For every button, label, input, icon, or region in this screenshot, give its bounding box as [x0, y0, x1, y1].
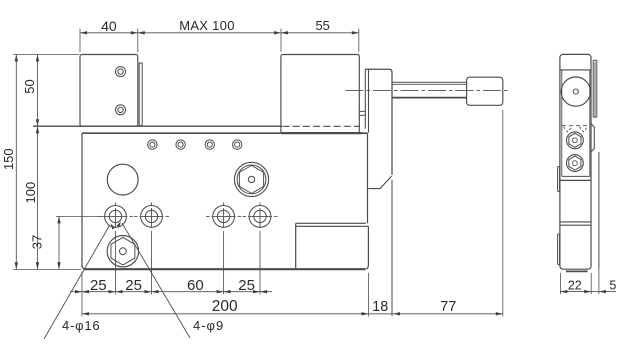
svg-text:150: 150 [1, 148, 16, 170]
svg-text:77: 77 [440, 299, 456, 315]
svg-text:22: 22 [568, 279, 582, 293]
svg-text:55: 55 [315, 18, 329, 33]
svg-text:25: 25 [90, 277, 107, 294]
svg-text:100: 100 [23, 182, 38, 204]
svg-text:5: 5 [609, 279, 616, 293]
svg-text:25: 25 [238, 277, 255, 294]
svg-text:50: 50 [22, 79, 37, 93]
svg-text:4-φ16: 4-φ16 [62, 318, 100, 333]
svg-text:18: 18 [372, 299, 388, 315]
svg-text:40: 40 [101, 18, 117, 34]
svg-text:25: 25 [125, 277, 142, 294]
svg-text:MAX 100: MAX 100 [179, 18, 235, 33]
svg-text:37: 37 [30, 235, 45, 249]
svg-text:200: 200 [212, 298, 238, 315]
svg-text:4-φ9: 4-φ9 [193, 318, 224, 333]
svg-text:60: 60 [187, 277, 204, 294]
